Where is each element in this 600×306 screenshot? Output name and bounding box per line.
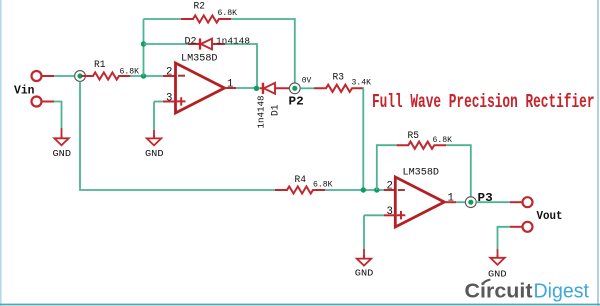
- junction R3 rail: [361, 187, 366, 192]
- junction at R1/pin2: [141, 73, 146, 78]
- op-amp U2: [395, 177, 444, 227]
- page border bottom: [0, 304, 600, 306]
- resistor R4: [275, 186, 325, 193]
- logo CircuitDigest: [465, 280, 590, 303]
- wire vertical feedback riser: [143, 19, 145, 76]
- port Vout-: [523, 222, 533, 232]
- node P1 (ring junction): [75, 71, 86, 82]
- port Vin-: [32, 97, 42, 107]
- wire R1 to op-amp pin2: [130, 75, 163, 77]
- wire R3 down to summing rail: [362, 88, 365, 190]
- wire node P1 down to lower rail: [80, 82, 275, 191]
- diode D1: [260, 87, 290, 89]
- port Vout+: [523, 197, 533, 207]
- resistor R3: [314, 85, 364, 92]
- ground GND (Vin-): [54, 135, 68, 146]
- diode D2: [188, 43, 225, 45]
- page border right: [597, 0, 599, 306]
- svg-text:R2: R2: [194, 2, 206, 13]
- svg-text:Full Wave Precision Rectifier: Full Wave Precision Rectifier: [372, 91, 595, 113]
- resistor R2: [181, 15, 231, 22]
- svg-text:6.8K: 6.8K: [433, 135, 453, 145]
- junction R5 rail: [374, 187, 379, 192]
- minus mark U2: [398, 189, 405, 191]
- svg-text:Vout: Vout: [537, 210, 563, 223]
- svg-text:LM358D: LM358D: [181, 53, 218, 64]
- wire Vin+ to node P1: [42, 75, 75, 77]
- svg-text:Digest: Digest: [534, 280, 590, 303]
- node P2: [289, 83, 300, 94]
- plus mark U2: [397, 211, 406, 219]
- wire Vout- to GND: [510, 226, 522, 228]
- svg-text:6.8K: 6.8K: [120, 66, 140, 76]
- wire U1 pin3 to GND: [153, 102, 155, 131]
- resistor R1: [81, 72, 131, 79]
- wire P2 to R3: [300, 87, 314, 89]
- svg-text:GND: GND: [53, 148, 72, 159]
- page border left: [0, 0, 2, 306]
- svg-text:6.8K: 6.8K: [218, 8, 238, 18]
- ground GND (Vout-): [490, 254, 504, 265]
- svg-text:LM358D: LM358D: [403, 168, 440, 179]
- port Vin+: [32, 71, 42, 81]
- plus mark U1: [177, 97, 186, 105]
- wire D2 branch: [144, 43, 189, 45]
- svg-text:3: 3: [387, 206, 393, 218]
- wire top R2 run: [144, 18, 183, 20]
- junction at D2 branch: [141, 41, 146, 46]
- wire P3 to Vout: [476, 201, 510, 203]
- ground GND (U1 pin3): [147, 135, 161, 146]
- svg-text:GND: GND: [145, 148, 164, 159]
- wire summing rail to U2 pin2: [325, 189, 384, 191]
- svg-text:1n4148: 1n4148: [216, 36, 250, 47]
- svg-text:3: 3: [166, 92, 172, 104]
- junction output/D1/D2: [254, 86, 259, 91]
- pin 3 stub U2: [364, 214, 384, 216]
- resistor R5: [396, 142, 446, 149]
- svg-text:2: 2: [166, 66, 172, 78]
- svg-text:R3: R3: [333, 73, 345, 84]
- svg-text:GND: GND: [355, 267, 374, 278]
- svg-text:Vin: Vin: [14, 85, 35, 98]
- svg-text:2: 2: [387, 181, 393, 193]
- wire U1 output: [225, 87, 237, 89]
- svg-text:GND: GND: [488, 269, 507, 280]
- wire U2 output to P3: [444, 201, 456, 203]
- wire U2 pin3 to GND: [363, 215, 365, 249]
- svg-text:R5: R5: [408, 131, 420, 142]
- svg-text:1n4148: 1n4148: [256, 95, 267, 128]
- svg-text:Circuit: Circuit: [465, 280, 533, 303]
- svg-text:0V: 0V: [302, 76, 312, 86]
- svg-text:P2: P2: [289, 95, 304, 109]
- svg-text:R1: R1: [94, 60, 106, 71]
- svg-text:R4: R4: [295, 175, 307, 186]
- minus mark U1: [178, 75, 185, 77]
- ground GND (U2 pin3): [357, 255, 371, 266]
- svg-text:D2: D2: [185, 37, 197, 48]
- wire Vin- to GND: [42, 102, 62, 139]
- wire R5 right riser to P3: [446, 145, 471, 197]
- pin 3 stub U1: [154, 101, 163, 103]
- wire R5 left riser: [377, 145, 396, 190]
- svg-text:6.8K: 6.8K: [313, 179, 333, 189]
- op-amp U1: [176, 63, 225, 113]
- svg-text:D1: D1: [271, 105, 282, 117]
- svg-text:3.4K: 3.4K: [352, 78, 372, 88]
- node P3: [465, 197, 476, 208]
